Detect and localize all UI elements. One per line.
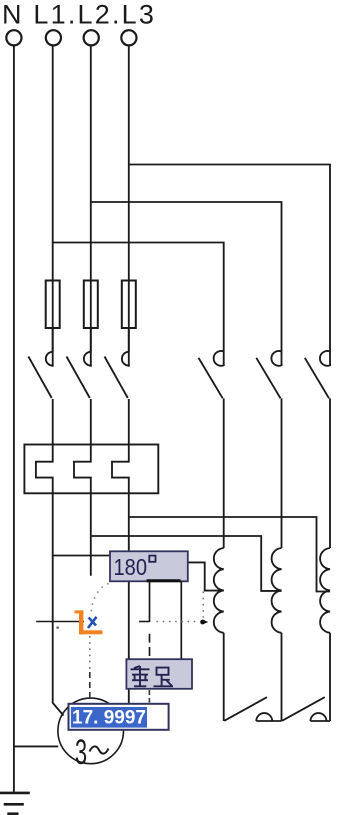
preview arc dotted	[91, 584, 109, 614]
star contact KM2 pole 2	[282, 697, 330, 721]
hidden wire segment at box bottom	[147, 579, 181, 582]
switch QS pole 3	[105, 352, 129, 445]
wire L2 fuse to switch	[90, 328, 92, 352]
fuse FU2	[84, 281, 98, 329]
switch QS pole 1	[28, 352, 52, 445]
relay heater element 2	[74, 445, 91, 494]
wire L1 branch to tap	[53, 555, 112, 557]
thermal overload relay FR box	[24, 445, 158, 494]
wire L3 below relay	[128, 493, 130, 715]
svg-text:180: 180	[114, 554, 148, 580]
dimension extension line b	[180, 581, 182, 659]
rubber band dotted vertical	[89, 636, 91, 670]
tracking dots horizontal	[157, 621, 200, 623]
wire L3 vertical upper	[128, 45, 130, 366]
wire branch L2 to right bank	[91, 202, 282, 366]
terminal L2	[84, 30, 99, 45]
svg-text:3: 3	[75, 734, 87, 772]
dimension extension line a dashed part	[149, 634, 151, 656]
rubber band dashed vertical	[89, 672, 91, 702]
autotransformer coil T3	[320, 548, 330, 721]
wire L3 branch to coil3 tap	[129, 517, 330, 592]
osnap tooltip box (chui zu)	[126, 659, 192, 689]
wire branch L3 to right bank	[129, 165, 330, 367]
fuse FU1	[46, 281, 60, 329]
switch QS pole 2	[67, 352, 91, 445]
tap link from 180 box to coil1	[188, 562, 224, 590]
glyph zu	[154, 668, 174, 687]
wire L2 below relay (open end)	[90, 493, 92, 576]
relay heater element 3	[112, 445, 129, 494]
tracking dots vertical right	[202, 592, 204, 618]
crosshair tick mid	[139, 621, 149, 623]
switch KM pole 2 (right bank)	[256, 351, 281, 548]
dashes below tooltip	[148, 690, 150, 703]
autotransformer coil T1	[214, 548, 224, 721]
cursor cross (blue)	[88, 617, 97, 628]
wire L1 below relay to motor	[53, 493, 64, 715]
switch KM pole 3 (right bank)	[305, 351, 330, 548]
wire L2 branch to coil2 tap	[91, 536, 282, 591]
stray dot	[56, 626, 59, 629]
relay heater element 1	[36, 445, 53, 494]
autotransformer coil T2	[272, 548, 282, 721]
motor M circle	[58, 698, 124, 764]
terminal N	[6, 30, 21, 45]
wire L1 vertical upper	[52, 45, 54, 366]
terminal L3	[121, 30, 136, 45]
wire branch L1 to right bank	[53, 243, 224, 367]
dynamic input length field 17.9997	[69, 704, 169, 730]
wire N to motor	[14, 745, 58, 747]
terminal L1	[46, 30, 61, 45]
wire L1 fuse to switch	[52, 328, 54, 352]
glyph chui	[131, 666, 150, 686]
fuse FU3	[122, 281, 136, 329]
ground	[0, 793, 30, 814]
crosshair horizontal left	[36, 621, 84, 623]
dimension extension line a	[149, 581, 151, 622]
svg-text:N L1.L2.L3: N L1.L2.L3	[2, 0, 156, 30]
star contact KM2 pole 1	[224, 697, 281, 721]
wire L3 fuse to switch	[128, 328, 130, 352]
dynamic input box 180deg	[110, 551, 188, 581]
wire N vertical	[13, 45, 15, 792]
wire L2 vertical upper	[90, 45, 92, 366]
switch KM pole 1 (right bank)	[199, 351, 224, 548]
osnap marker perpendicular (orange)	[75, 610, 103, 634]
svg-text:17. 9997: 17. 9997	[72, 708, 146, 729]
tracking endpoint dot	[200, 620, 208, 625]
